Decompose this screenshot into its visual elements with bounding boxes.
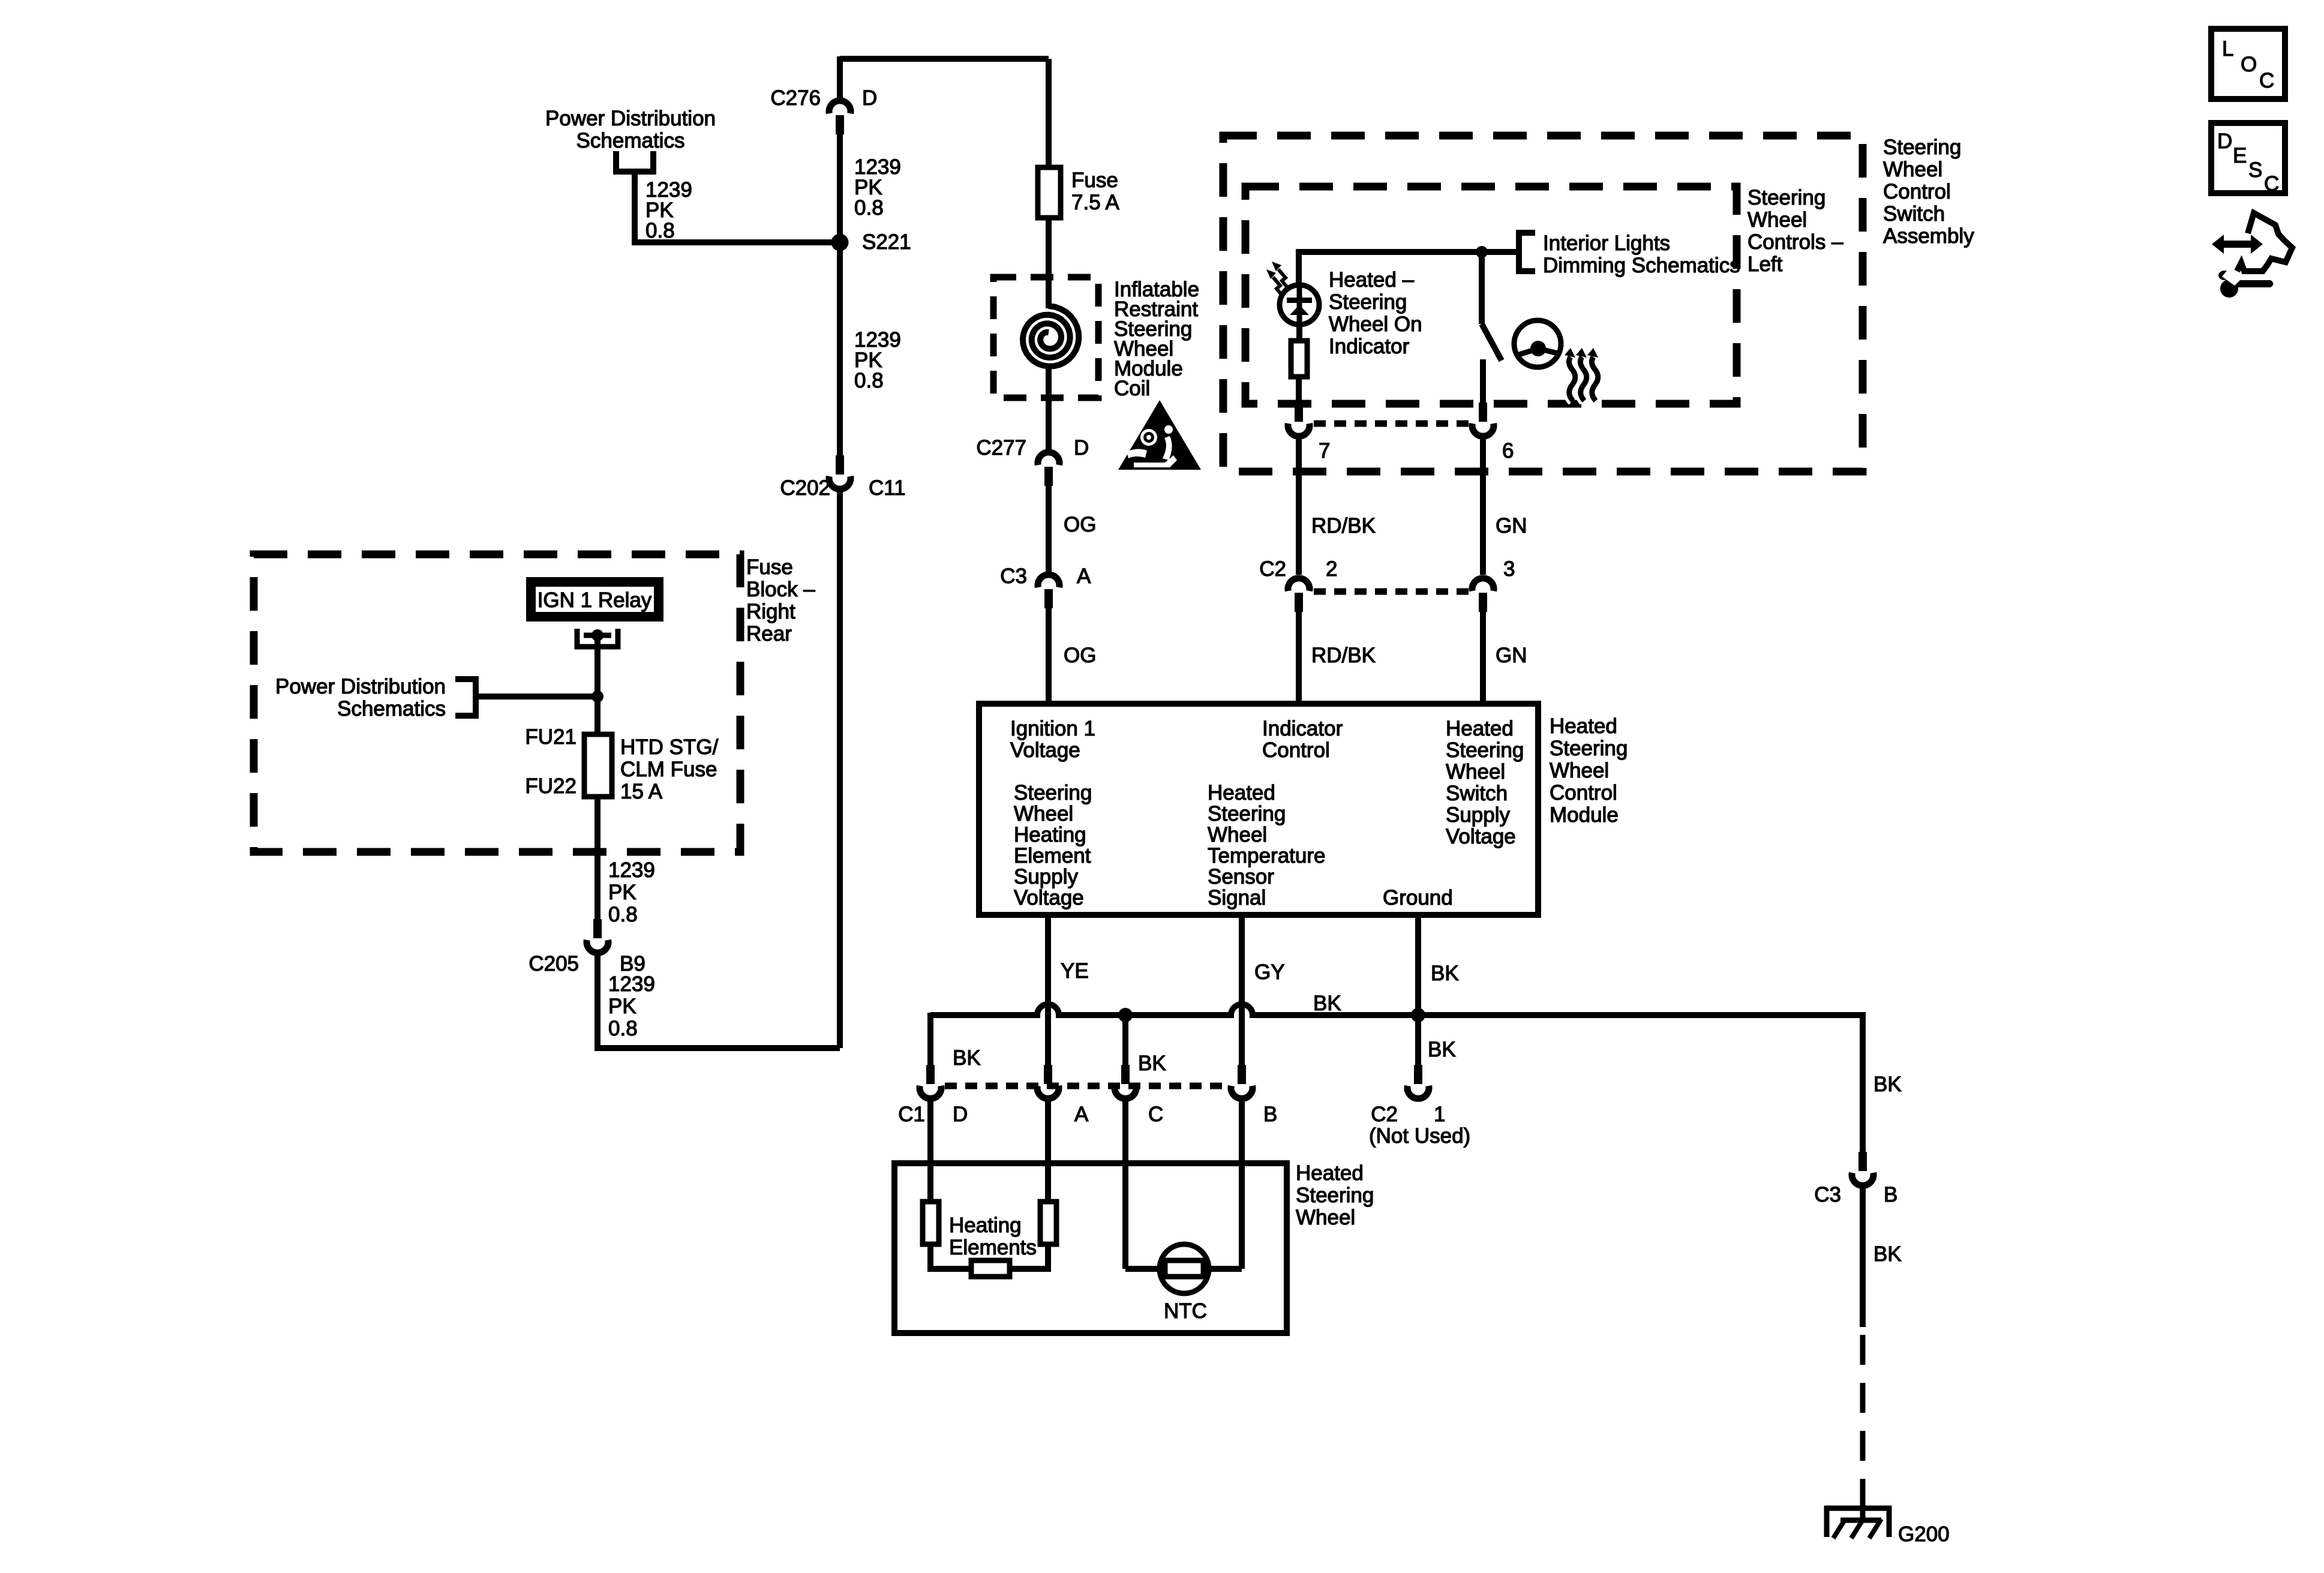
wire C3-B down <box>1860 1185 1866 1327</box>
wire C3 to module <box>1046 608 1052 704</box>
svg-text:C11: C11 <box>869 476 906 500</box>
wire top horizontal from C276 to fuse <box>840 56 1049 62</box>
wire GY module to C1-B <box>1239 915 1245 1065</box>
svg-text:Steering: Steering <box>1014 781 1092 804</box>
resistor heating element left <box>923 1202 939 1244</box>
off-page reference Interior Lights Dimming Schematics <box>1519 233 1535 271</box>
dotted connector line pins 7-6 <box>1314 421 1469 427</box>
wire fuse to C205 <box>594 797 600 921</box>
svg-text:Indicator: Indicator <box>1329 335 1410 358</box>
connector C202 / C11 <box>836 455 844 475</box>
wire junction to switch <box>1479 252 1485 324</box>
svg-text:IGN 1 Relay: IGN 1 Relay <box>538 589 652 612</box>
svg-text:Switch: Switch <box>1883 202 1945 226</box>
svg-text:C: C <box>2264 172 2279 196</box>
relay IGN 1 Relay box <box>531 582 659 617</box>
switch blade heated steering wheel switch <box>1482 324 1502 361</box>
connector pin 7 <box>1295 403 1303 422</box>
connector C1 pin C <box>1121 1065 1130 1084</box>
wire C276 to S221 <box>837 134 843 242</box>
svg-text:Assembly: Assembly <box>1883 224 1974 248</box>
svg-text:3: 3 <box>1503 557 1515 581</box>
svg-text:Voltage: Voltage <box>1010 739 1080 762</box>
svg-text:HTD STG/: HTD STG/ <box>620 736 719 759</box>
svg-text:GN: GN <box>1496 644 1527 667</box>
svg-text:Wheel On: Wheel On <box>1329 313 1422 336</box>
svg-text:C277: C277 <box>976 436 1026 460</box>
svg-text:C202: C202 <box>780 476 830 500</box>
svg-text:Voltage: Voltage <box>1014 886 1084 909</box>
svg-text:Fuse: Fuse <box>1071 169 1118 192</box>
svg-text:Voltage: Voltage <box>1446 825 1516 848</box>
dotted connector line C2 pins 2-3 <box>1314 589 1469 595</box>
LED emission arrows <box>1278 269 1287 287</box>
svg-text:Temperature: Temperature <box>1208 844 1325 867</box>
svg-text:BK: BK <box>1873 1073 1902 1096</box>
svg-text:BK: BK <box>1431 962 1459 985</box>
splice S221 <box>831 234 849 251</box>
connector C205 pin B9 <box>593 919 602 938</box>
wire C2-2 to module <box>1296 612 1302 704</box>
svg-text:2: 2 <box>1326 557 1337 581</box>
svg-text:B: B <box>1884 1183 1897 1206</box>
fuse HTD STG/CLM 15A <box>584 734 612 797</box>
indicator LED lamp Heated Steering Wheel On <box>1280 285 1319 325</box>
svg-text:Left: Left <box>1747 253 1783 276</box>
svg-text:BK: BK <box>1873 1242 1902 1266</box>
wire LED to resistor <box>1296 325 1302 341</box>
resistor heating element right <box>1040 1202 1056 1244</box>
svg-text:BK: BK <box>953 1046 981 1070</box>
svg-text:Element: Element <box>1014 844 1091 867</box>
connector C3 pin A <box>1044 589 1053 608</box>
svg-text:L: L <box>2222 37 2233 61</box>
wire resistor to pin 7 <box>1296 377 1302 403</box>
connector C1 pin B <box>1238 1065 1246 1084</box>
wire pin7 to C2-2 <box>1296 436 1302 575</box>
dashed box steering wheel control switch assembly <box>1223 136 1863 472</box>
svg-text:FU21: FU21 <box>525 725 577 749</box>
wire B pin to NTC <box>1203 1266 1242 1272</box>
svg-text:YE: YE <box>1061 959 1089 983</box>
ground G200 symbol <box>1860 1492 1866 1520</box>
svg-text:OG: OG <box>1064 644 1096 667</box>
wire junction to fuse FU21 <box>594 697 600 734</box>
svg-text:Dimming Schematics: Dimming Schematics <box>1543 254 1740 277</box>
wire C1-C to heated wheel box <box>1122 1098 1128 1269</box>
wire power distribution to relay output <box>476 694 597 700</box>
svg-text:Schematics: Schematics <box>577 129 685 152</box>
wire switch to pin 6 <box>1480 359 1486 403</box>
svg-text:B: B <box>1263 1103 1277 1126</box>
svg-text:1239: 1239 <box>608 858 655 882</box>
svg-text:Steering: Steering <box>1883 136 1961 159</box>
svg-text:RD/BK: RD/BK <box>1311 644 1376 667</box>
svg-text:E: E <box>2233 144 2247 167</box>
wire C276 drop <box>837 56 843 101</box>
svg-text:O: O <box>2241 53 2257 76</box>
coil inflatable restraint steering wheel module coil (spiral) <box>1023 306 1079 367</box>
svg-text:Heated: Heated <box>1550 715 1617 738</box>
svg-text:Heating: Heating <box>1014 823 1086 846</box>
wire junction to C2-1 <box>1415 1015 1421 1065</box>
wire YE module to C1-A <box>1045 915 1051 1065</box>
svg-text:0.8: 0.8 <box>645 219 675 242</box>
svg-text:OG: OG <box>1064 513 1096 536</box>
wire C205 to corner and up to C202 <box>597 953 840 1048</box>
svg-text:Control: Control <box>1883 180 1951 203</box>
fuse 7.5 A <box>1038 167 1061 218</box>
wire top to fuse 7.5A <box>1046 59 1052 167</box>
svg-text:1239: 1239 <box>608 972 655 996</box>
svg-text:NTC: NTC <box>1164 1299 1207 1323</box>
svg-text:Ignition 1: Ignition 1 <box>1010 717 1095 740</box>
svg-text:GN: GN <box>1496 514 1527 538</box>
connector C2 pin 3 <box>1479 593 1487 612</box>
wire C1-A to heated wheel box <box>1045 1098 1051 1202</box>
svg-text:Schematics: Schematics <box>337 697 446 721</box>
svg-text:Steering: Steering <box>1208 802 1286 825</box>
svg-text:Fuse: Fuse <box>746 556 793 579</box>
svg-text:C2: C2 <box>1259 557 1286 581</box>
svg-text:Right: Right <box>746 600 795 623</box>
svg-text:Control: Control <box>1550 781 1617 804</box>
fuse block dashed box <box>254 554 740 852</box>
icon part outline <box>2237 213 2292 271</box>
svg-text:0.8: 0.8 <box>854 196 884 220</box>
svg-text:Block –: Block – <box>746 578 815 601</box>
icon LOC box <box>2211 29 2285 99</box>
resistor indicator dropping resistor <box>1291 341 1307 377</box>
svg-text:Wheel: Wheel <box>1208 823 1267 846</box>
svg-text:C: C <box>1148 1103 1163 1126</box>
svg-text:Steering: Steering <box>1296 1184 1374 1207</box>
svg-text:Wheel: Wheel <box>1550 759 1609 782</box>
svg-text:Indicator: Indicator <box>1262 717 1343 740</box>
svg-text:A: A <box>1077 565 1091 588</box>
svg-text:Module: Module <box>1550 803 1619 827</box>
wire C277 to C3 <box>1046 486 1052 575</box>
airbag warning triangle <box>1118 400 1201 470</box>
switch icon steering wheel with heat <box>1514 320 1561 367</box>
svg-text:6: 6 <box>1502 439 1514 463</box>
svg-text:Wheel: Wheel <box>1747 208 1807 232</box>
svg-text:Interior Lights: Interior Lights <box>1543 232 1670 255</box>
svg-text:C205: C205 <box>529 952 579 975</box>
svg-text:Ground: Ground <box>1383 886 1453 909</box>
svg-text:7.5 A: 7.5 A <box>1071 191 1119 214</box>
svg-text:BK: BK <box>1428 1038 1456 1061</box>
connector C277 pin D <box>1044 467 1053 486</box>
svg-text:Power Distribution: Power Distribution <box>545 107 716 130</box>
svg-text:Coil: Coil <box>1114 377 1150 400</box>
svg-text:C3: C3 <box>1814 1183 1841 1206</box>
wire heating elements series link <box>930 1244 971 1269</box>
connector C2 pin 1 (not used) <box>1414 1065 1422 1084</box>
svg-text:BK: BK <box>1313 992 1341 1015</box>
wire junction to C1-C <box>1122 1015 1128 1065</box>
svg-text:S221: S221 <box>862 230 911 254</box>
svg-text:S: S <box>2248 158 2262 182</box>
thermistor NTC sensor <box>1160 1244 1209 1293</box>
svg-text:Heating: Heating <box>949 1214 1022 1237</box>
dashed box inflatable restraint coil <box>993 277 1098 398</box>
svg-text:C1: C1 <box>898 1103 925 1126</box>
wire dashed to ground <box>1860 1335 1866 1492</box>
svg-text:0.8: 0.8 <box>854 369 884 392</box>
svg-text:1: 1 <box>1434 1103 1445 1126</box>
svg-text:Supply: Supply <box>1014 865 1079 888</box>
svg-text:GY: GY <box>1254 960 1285 984</box>
wire pin6 to C2-3 <box>1480 436 1486 575</box>
svg-text:Wheel: Wheel <box>1014 802 1073 825</box>
svg-text:7: 7 <box>1319 439 1330 463</box>
wire coil to C277 <box>1046 368 1052 452</box>
svg-text:Signal: Signal <box>1208 886 1266 909</box>
wire bus to C3-B <box>1860 1012 1866 1152</box>
module Heated Steering Wheel Control Module box <box>979 704 1538 915</box>
svg-text:RD/BK: RD/BK <box>1311 514 1376 538</box>
svg-text:Control: Control <box>1262 739 1330 762</box>
svg-text:D: D <box>953 1103 968 1126</box>
svg-text:Heated: Heated <box>1208 781 1275 804</box>
wire relay to junction <box>594 635 600 697</box>
dashed box steering wheel controls - left <box>1245 187 1737 404</box>
junction dot interior lights <box>1476 246 1488 258</box>
svg-text:D: D <box>862 86 877 110</box>
switch heat waves <box>1569 357 1575 401</box>
svg-text:Rear: Rear <box>746 622 792 646</box>
svg-text:CLM Fuse: CLM Fuse <box>620 758 717 781</box>
connector C3 pin B <box>1858 1152 1867 1171</box>
wire bus left to C1-D <box>927 1013 933 1065</box>
wire BK ground module to bus <box>1415 915 1421 1015</box>
svg-text:Elements: Elements <box>949 1236 1037 1259</box>
connector C276 pin D <box>836 115 844 134</box>
wire fuse to coil <box>1046 218 1052 308</box>
icon double arrow <box>2212 235 2263 254</box>
svg-text:Heated: Heated <box>1446 717 1514 740</box>
svg-text:Sensor: Sensor <box>1208 865 1274 888</box>
svg-text:Steering: Steering <box>1550 737 1628 760</box>
svg-text:Power Distribution: Power Distribution <box>275 675 446 698</box>
svg-text:Wheel: Wheel <box>1883 158 1942 181</box>
ground bus wire with hops <box>930 1004 1863 1015</box>
svg-text:Steering: Steering <box>1446 739 1524 762</box>
svg-text:FU22: FU22 <box>525 775 577 798</box>
svg-text:Switch: Switch <box>1446 782 1508 805</box>
wire C1-D to heated wheel box <box>927 1098 933 1202</box>
svg-text:PK: PK <box>608 881 636 904</box>
svg-text:Supply: Supply <box>1446 803 1511 827</box>
svg-text:15 A: 15 A <box>620 780 663 803</box>
svg-text:D: D <box>1074 436 1089 460</box>
svg-text:PK: PK <box>608 995 636 1018</box>
svg-text:0.8: 0.8 <box>608 1017 638 1040</box>
connector pin 6 <box>1479 403 1487 422</box>
dotted connector line C1 <box>945 1083 1227 1089</box>
svg-text:C: C <box>2259 69 2274 92</box>
wire C2-3 to module <box>1480 612 1486 704</box>
svg-text:BK: BK <box>1138 1052 1166 1075</box>
icon DESC box <box>2211 123 2285 193</box>
connector C2 pin 2 <box>1295 593 1303 612</box>
junction dot bus at C1-C <box>1118 1008 1133 1022</box>
box Heated Steering Wheel <box>894 1163 1287 1333</box>
junction dot at relay output <box>591 691 603 703</box>
svg-text:C276: C276 <box>770 86 821 110</box>
svg-text:D: D <box>2217 130 2232 153</box>
svg-text:Wheel: Wheel <box>1296 1206 1355 1229</box>
resistor series heating element <box>971 1260 1010 1277</box>
wire C202 down to bottom corner <box>837 489 843 1048</box>
connector C1 pin D <box>926 1065 935 1084</box>
svg-text:Steering: Steering <box>1747 186 1825 209</box>
svg-text:Heated: Heated <box>1296 1161 1364 1185</box>
svg-text:G200: G200 <box>1898 1523 1950 1546</box>
svg-text:Heated –: Heated – <box>1329 268 1415 292</box>
svg-text:C3: C3 <box>1000 565 1027 588</box>
svg-text:A: A <box>1074 1103 1089 1126</box>
svg-text:C2: C2 <box>1371 1103 1398 1126</box>
wire S221 to C202 <box>837 242 843 455</box>
wire from power distribution reference to S221 <box>635 172 840 242</box>
svg-text:Wheel: Wheel <box>1446 760 1505 784</box>
wire LED top to interior lights reference <box>1299 252 1519 286</box>
junction dot bus at ground pin <box>1411 1008 1425 1022</box>
relay output terminal bracket <box>577 629 618 647</box>
connector C1 pin A <box>1044 1065 1052 1084</box>
wire C pin to NTC <box>1125 1266 1165 1272</box>
svg-text:(Not Used): (Not Used) <box>1369 1124 1470 1148</box>
svg-text:Steering: Steering <box>1329 290 1407 314</box>
wire C1-B to heated wheel box <box>1239 1098 1245 1269</box>
svg-text:0.8: 0.8 <box>608 903 638 926</box>
svg-text:Controls –: Controls – <box>1747 230 1843 254</box>
icon wrench <box>2220 280 2238 298</box>
